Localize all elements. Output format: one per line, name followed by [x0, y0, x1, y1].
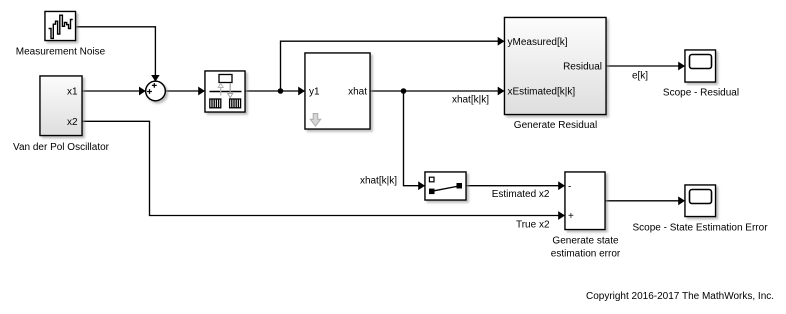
- svg-text:Scope - Residual: Scope - Residual: [663, 87, 739, 98]
- svg-text:-: -: [568, 181, 571, 192]
- svg-text:True x2: True x2: [516, 219, 550, 230]
- svg-text:Scope - State Estimation Error: Scope - State Estimation Error: [632, 222, 768, 233]
- block Scope - State Estimation Error: [685, 185, 716, 217]
- svg-text:x1: x1: [67, 87, 78, 98]
- wire from Van der Pol x2 to Generate state estimation error plus input: [82, 121, 565, 215]
- svg-text:xhat[k|k]: xhat[k|k]: [360, 175, 397, 186]
- wire from Sum to Rate Transition: [165, 90, 205, 92]
- svg-text:Generate Residual: Generate Residual: [514, 120, 597, 131]
- block Van der Pol Oscillator: [40, 76, 82, 136]
- junction dot at measured signal branch: [278, 88, 284, 94]
- svg-text:x2: x2: [67, 117, 78, 128]
- svg-text:Generate state: Generate state: [552, 236, 619, 247]
- svg-text:Van der Pol Oscillator: Van der Pol Oscillator: [13, 142, 110, 153]
- svg-text:yMeasured[k]: yMeasured[k]: [508, 37, 568, 48]
- sum block: [146, 81, 166, 101]
- svg-text:Residual: Residual: [563, 62, 602, 73]
- wire from Measurement Noise to Sum: [76, 27, 156, 82]
- junction dot at xhat branch: [401, 88, 407, 94]
- wire from Manual Switch to Generate state estimation error minus input: [466, 185, 565, 187]
- wire from Generate state estimation error to Scope - State Estimation Error: [605, 200, 685, 202]
- wire from Van der Pol x1 to Sum: [82, 90, 146, 92]
- block Measurement Noise: [45, 12, 76, 41]
- svg-text:xEstimated[k|k]: xEstimated[k|k]: [508, 86, 576, 97]
- block Generate state estimation error: [565, 172, 605, 230]
- wire branch junction to Manual Switch: [404, 91, 425, 186]
- block Generate Residual: [505, 18, 607, 115]
- block Scope - Residual: [685, 50, 716, 82]
- block Manual Switch: [425, 172, 466, 200]
- svg-text:Copyright 2016-2017 The MathWo: Copyright 2016-2017 The MathWorks, Inc.: [586, 291, 774, 302]
- svg-text:e[k]: e[k]: [632, 70, 648, 81]
- wire from Generate Residual Residual to Scope - Residual: [606, 65, 685, 67]
- svg-text:estimation error: estimation error: [551, 249, 621, 260]
- svg-text:Estimated x2: Estimated x2: [492, 189, 550, 200]
- svg-text:xhat[k|k]: xhat[k|k]: [452, 95, 489, 106]
- block Rate Transition: [205, 71, 245, 112]
- wire branch junction to Generate Residual yMeasured[k]: [281, 41, 505, 91]
- wire from Rate Transition to Kalman filter y1: [245, 90, 305, 92]
- block Kalman filter: [305, 53, 370, 129]
- svg-text:xhat: xhat: [348, 87, 367, 98]
- svg-text:Measurement Noise: Measurement Noise: [16, 46, 106, 57]
- svg-text:+: +: [568, 211, 574, 222]
- wire from Kalman xhat to Generate Residual xEstimated[k|k]: [370, 90, 504, 92]
- svg-text:y1: y1: [309, 87, 320, 98]
